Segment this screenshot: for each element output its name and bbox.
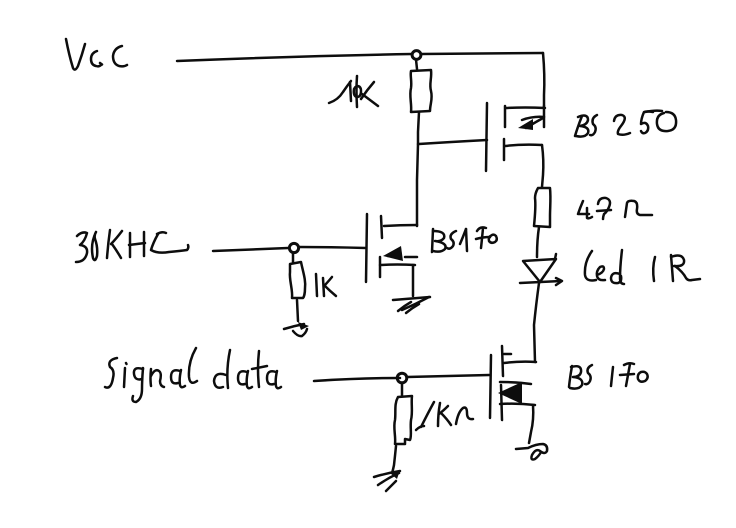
label 1K	[316, 274, 336, 296]
ground below Q2	[393, 297, 430, 313]
text 38KHZ label	[76, 230, 188, 262]
wire R1 to gate node	[418, 112, 419, 144]
resistor R4 1k	[394, 396, 412, 444]
wire gate link to BS250	[419, 140, 487, 144]
wire 38KHZ input	[213, 248, 288, 251]
label Led IR	[585, 250, 700, 284]
node top Vcc node	[412, 51, 421, 60]
wire R4 to ground	[392, 446, 396, 473]
label 47R	[578, 198, 652, 219]
wire LED to Q3 drain	[534, 283, 539, 362]
node 38KHZ node	[289, 243, 298, 252]
label crossed-out 1K value	[329, 76, 378, 107]
wire node to Q3 gate	[407, 375, 489, 377]
wire down to Q2 drain	[417, 144, 418, 226]
ground below Q3	[516, 444, 547, 460]
label BS170	[432, 227, 497, 252]
wire node to R1	[416, 60, 417, 70]
wire node to R3	[292, 253, 295, 262]
ground below R4	[374, 470, 400, 491]
wire Signal data input	[314, 378, 400, 381]
transistor Q2 BS170	[366, 214, 417, 296]
text Signal data label	[105, 348, 281, 402]
wire R2 to LED	[537, 227, 539, 257]
label BS 250	[575, 111, 676, 137]
wire Vcc rail left segment	[177, 54, 412, 61]
wire node to R4	[401, 383, 404, 396]
resistor R1 pull-up	[410, 70, 431, 112]
wire node to Q2 gate	[299, 247, 366, 248]
ground below R3	[284, 322, 309, 336]
LED D1	[520, 254, 562, 285]
wire BS250 drain down to R2	[542, 145, 543, 187]
transistor U1 BS250 p-channel	[486, 103, 545, 171]
resistor R3 1K	[290, 262, 305, 298]
wire Vcc rail right segment	[421, 53, 543, 54]
transistor Q3 BS170	[490, 346, 536, 443]
label 1kr	[416, 402, 473, 430]
text Vcc label	[66, 39, 127, 70]
wire R3 to ground	[297, 300, 298, 321]
node signal node	[397, 373, 407, 383]
wire Vcc corner down to BS250 source	[543, 53, 544, 108]
label BS 170	[569, 363, 648, 388]
resistor R2 47R	[534, 188, 550, 227]
